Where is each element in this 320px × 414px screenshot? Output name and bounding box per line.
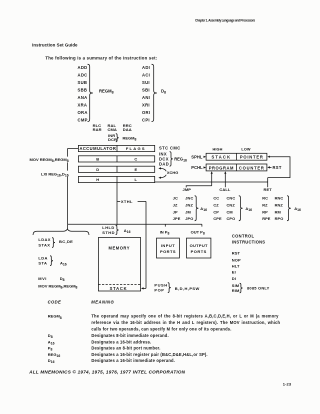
- svg-text:INPUT: INPUT: [161, 243, 175, 248]
- svg-text:PROGRAM: PROGRAM: [209, 165, 234, 170]
- svg-text:HIGH: HIGH: [213, 147, 223, 151]
- svg-text:B,D,H,PSW: B,D,H,PSW: [175, 286, 200, 291]
- wire JMP riser: [211, 173, 213, 185]
- svg-text:RZ: RZ: [262, 202, 268, 207]
- svg-text:CONTROL: CONTROL: [232, 234, 255, 239]
- brace lda sta: [50, 256, 53, 266]
- svg-text:ACI: ACI: [142, 72, 150, 77]
- svg-text:MOV REGM8,REGM8: MOV REGM8,REGM8: [38, 283, 77, 289]
- svg-text:E: E: [134, 167, 137, 172]
- svg-text:8085 ONLY: 8085 ONLY: [247, 285, 270, 290]
- brace INR DCR: [116, 134, 119, 142]
- svg-text:SBB: SBB: [78, 87, 88, 92]
- svg-text:JPO: JPO: [185, 216, 193, 221]
- svg-text:XRA: XRA: [78, 102, 88, 107]
- svg-text:REGM8: REGM8: [123, 136, 137, 142]
- svg-text:A16: A16: [48, 339, 55, 345]
- brace call conds: [239, 196, 243, 221]
- svg-text:D: D: [96, 167, 99, 172]
- svg-text:OUTPUT: OUTPUT: [190, 243, 208, 248]
- svg-text:SUB: SUB: [78, 80, 88, 85]
- svg-text:The following is a summary of: The following is a summary of the instru…: [45, 55, 157, 60]
- svg-text:calls for two operands, can sp: calls for two operands, can specify M fo…: [91, 327, 231, 332]
- svg-text:D8: D8: [60, 276, 65, 282]
- svg-text:CZ: CZ: [213, 202, 219, 207]
- svg-text:A16: A16: [294, 206, 301, 212]
- svg-text:C: C: [134, 157, 137, 162]
- box INPUT PORTS: [157, 238, 180, 258]
- svg-text:P8: P8: [48, 346, 53, 352]
- svg-text:IN P8: IN P8: [160, 230, 170, 236]
- svg-text:RST: RST: [273, 165, 282, 170]
- svg-text:ORA: ORA: [78, 110, 88, 115]
- svg-text:INSTRUCTIONS: INSTRUCTIONS: [232, 239, 265, 244]
- svg-text:XTHL: XTHL: [121, 199, 133, 204]
- svg-text:PCHL: PCHL: [191, 165, 203, 170]
- svg-text:REGM8: REGM8: [48, 314, 62, 320]
- box OUTPUT PORTS: [187, 238, 211, 258]
- stack dashed line: [98, 283, 140, 285]
- svg-text:D8: D8: [48, 333, 53, 339]
- svg-text:DI: DI: [232, 276, 236, 281]
- svg-text:LOW: LOW: [241, 147, 250, 151]
- svg-text:JP: JP: [173, 209, 178, 214]
- svg-text:CPE: CPE: [213, 216, 222, 221]
- svg-text:ORI: ORI: [142, 110, 150, 115]
- svg-text:Designates an 8-bit port numbe: Designates an 8-bit port number.: [91, 346, 160, 351]
- svg-text:ANA: ANA: [78, 95, 88, 100]
- svg-text:L: L: [135, 177, 138, 182]
- brace push pop: [168, 283, 171, 293]
- wire RET loop: [268, 157, 290, 178]
- svg-text:MEANING: MEANING: [91, 300, 114, 305]
- register box H/L: [78, 176, 154, 182]
- svg-text:CNZ: CNZ: [227, 202, 236, 207]
- svg-text:RP: RP: [262, 209, 268, 214]
- svg-text:CODE: CODE: [48, 300, 62, 305]
- svg-text:DCR: DCR: [108, 137, 117, 142]
- wire bus to IN: [164, 224, 166, 226]
- svg-text:CMA: CMA: [108, 127, 117, 132]
- svg-text:ANI: ANI: [142, 95, 150, 100]
- register box B/C: [78, 156, 154, 162]
- svg-text:B: B: [96, 157, 99, 162]
- svg-text:HLT: HLT: [232, 264, 240, 269]
- svg-text:A16: A16: [124, 228, 131, 234]
- svg-text:RET: RET: [264, 187, 273, 192]
- wire XTHL left leg: [116, 183, 118, 225]
- svg-text:POINTER: POINTER: [240, 155, 264, 160]
- svg-text:CMP: CMP: [78, 117, 88, 122]
- svg-text:JC: JC: [173, 196, 178, 201]
- svg-text:BC,DE: BC,DE: [59, 239, 73, 244]
- svg-text:MOV REGM8,REGM8: MOV REGM8,REGM8: [30, 157, 69, 163]
- wire RET riser: [267, 178, 269, 188]
- label RST: [267, 166, 270, 168]
- svg-text:ACCUMULATOR: ACCUMULATOR: [79, 146, 116, 151]
- svg-text:RIM: RIM: [232, 288, 240, 293]
- svg-text:STACK: STACK: [110, 286, 128, 291]
- svg-text:D16: D16: [48, 358, 55, 364]
- svg-text:MVI: MVI: [38, 276, 47, 281]
- brace LHLD SHLD: [116, 225, 119, 234]
- box MEMORY: [98, 238, 140, 292]
- brace REG16 group: [170, 152, 173, 167]
- brace D8 group: [152, 64, 157, 121]
- svg-text:STACK: STACK: [211, 155, 231, 160]
- svg-text:RC: RC: [262, 196, 268, 201]
- svg-text:Designates a 16-bit address.: Designates a 16-bit address.: [91, 339, 151, 344]
- wire bus to OUT: [201, 224, 203, 226]
- svg-text:EI: EI: [232, 270, 236, 275]
- svg-text:ALL MNEMONICS © 1974, 1975, 19: ALL MNEMONICS © 1974, 1975, 1976, 1977 I…: [28, 369, 185, 375]
- xchg arrows: [158, 167, 161, 169]
- svg-text:XCHG: XCHG: [167, 170, 178, 175]
- svg-text:ADC: ADC: [78, 72, 88, 77]
- wire XTHL right leg: [145, 201, 147, 288]
- svg-text:CPO: CPO: [227, 216, 236, 221]
- wire spine lower: [67, 177, 69, 225]
- brace ret conds: [287, 196, 291, 221]
- svg-text:Designates a 16-bit immediate: Designates a 16-bit immediate operand.: [91, 358, 175, 363]
- svg-text:Chapter 1. Assembly Language: Chapter 1. Assembly Language and Process…: [195, 19, 255, 23]
- svg-text:PORTS: PORTS: [160, 249, 176, 254]
- svg-text:RNZ: RNZ: [275, 202, 284, 207]
- svg-text:RM: RM: [275, 209, 281, 214]
- svg-text:JPE: JPE: [173, 216, 181, 221]
- svg-text:OUT P8: OUT P8: [191, 230, 205, 236]
- svg-text:SPHL: SPHL: [191, 154, 203, 159]
- svg-text:COUNTER: COUNTER: [239, 165, 265, 170]
- svg-text:FLAGS: FLAGS: [126, 146, 146, 151]
- svg-text:JZ: JZ: [173, 202, 178, 207]
- svg-text:CALL: CALL: [219, 187, 231, 192]
- svg-text:CC: CC: [213, 196, 219, 201]
- svg-text:XRI: XRI: [142, 102, 150, 107]
- svg-text:STC CMC: STC CMC: [159, 146, 181, 151]
- register box ACCUMULATOR/FLAGS: [78, 145, 154, 151]
- brace ldax stax: [52, 238, 55, 248]
- svg-text:PORTS: PORTS: [191, 249, 207, 254]
- box PROGRAM COUNTER: [206, 164, 267, 171]
- svg-text:RST: RST: [232, 251, 241, 256]
- wire spine upper: [67, 162, 69, 170]
- wire jump line: [155, 181, 268, 183]
- svg-text:REG16: REG16: [174, 157, 187, 163]
- svg-text:STA: STA: [38, 261, 47, 266]
- svg-text:The operand may specify one of: The operand may specify one of the 8-bit…: [91, 314, 279, 319]
- svg-text:Designates a 16-bit register p: Designates a 16-bit register pair (B&C,D…: [91, 352, 207, 357]
- svg-text:MEMORY: MEMORY: [109, 246, 131, 251]
- svg-text:D8: D8: [161, 89, 166, 95]
- svg-text:LXI REG16,D16: LXI REG16,D16: [41, 171, 69, 177]
- brace REGM8 group: [88, 64, 93, 121]
- svg-text:ADI: ADI: [142, 65, 150, 70]
- box STACK POINTER: [206, 153, 267, 160]
- svg-text:DAA: DAA: [123, 127, 132, 132]
- svg-text:RPE: RPE: [262, 216, 271, 221]
- svg-text:JNC: JNC: [185, 196, 193, 201]
- svg-text:RAR: RAR: [93, 127, 102, 132]
- wire bus to LHLD: [116, 224, 118, 225]
- svg-text:RNC: RNC: [275, 196, 284, 201]
- brace 8085 only: [240, 283, 243, 293]
- register box D/E: [78, 166, 154, 172]
- wire bus to brace: [67, 224, 69, 229]
- svg-text:JNZ: JNZ: [185, 202, 193, 207]
- svg-text:Designates 8-bit immediate ope: Designates 8-bit immediate operand.: [91, 333, 168, 338]
- svg-text:STHD: STHD: [102, 230, 115, 235]
- svg-text:Instruction Set Guide: Instruction Set Guide: [32, 43, 78, 48]
- svg-text:REGM8: REGM8: [99, 89, 114, 95]
- svg-text:POP: POP: [154, 288, 164, 293]
- brace over LDAX group: [33, 229, 89, 235]
- wire push arrow: [143, 287, 146, 289]
- svg-text:SUI: SUI: [142, 80, 150, 85]
- svg-text:CNC: CNC: [227, 196, 236, 201]
- wire bus: [68, 223, 202, 225]
- label XTHL: [117, 200, 120, 202]
- wire CALL riser: [224, 173, 226, 187]
- svg-text:JM: JM: [185, 209, 191, 214]
- svg-text:SBI: SBI: [142, 87, 150, 92]
- svg-text:A16: A16: [200, 206, 207, 212]
- svg-text:REG16: REG16: [48, 352, 61, 358]
- svg-text:DAD: DAD: [159, 161, 169, 166]
- svg-text:JMP: JMP: [183, 187, 192, 192]
- svg-text:RPO: RPO: [275, 216, 284, 221]
- svg-text:H: H: [96, 177, 99, 182]
- svg-text:CP: CP: [213, 209, 219, 214]
- svg-text:A16: A16: [60, 260, 67, 266]
- svg-text:reference via the 16-bit addre: reference via the 16-bit address in the …: [91, 320, 280, 325]
- brace jump conds: [195, 196, 199, 221]
- svg-text:CPI: CPI: [142, 117, 150, 122]
- svg-text:1-23: 1-23: [283, 382, 292, 387]
- svg-text:NOP: NOP: [232, 257, 241, 262]
- wire MOV hook: [68, 149, 79, 157]
- svg-text:CM: CM: [227, 209, 233, 214]
- svg-text:STAX: STAX: [38, 242, 50, 247]
- svg-text:ADD: ADD: [78, 65, 88, 70]
- svg-text:A16: A16: [245, 206, 252, 212]
